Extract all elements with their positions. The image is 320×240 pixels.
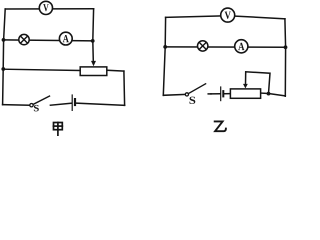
switch S (left circuit) xyxy=(30,96,50,107)
node: junction dot right rail / lamp row (right circuit) xyxy=(284,45,288,49)
battery B (right circuit) xyxy=(221,87,225,101)
wire: top rail (left circuit) xyxy=(5,8,93,10)
wire: bottom rail to switch (right circuit) xyxy=(163,93,185,96)
wire: battery to rheostat (right circuit) xyxy=(225,93,231,95)
wire: rheostat right terminal to right rail corner xyxy=(107,69,124,72)
wire: battery to bottom-right corner (left circuit) xyxy=(76,103,124,105)
label 乙 (drawn glyph) xyxy=(215,121,226,131)
node: junction dot left rail / rheostat row xyxy=(1,67,5,71)
label 甲 (drawn glyph) xyxy=(54,123,63,136)
ammeter A (left circuit) xyxy=(59,32,72,45)
wire: left rail (left circuit) xyxy=(3,9,6,105)
wire: right upper rail from top rail to slider arrow (left circuit) xyxy=(92,9,95,61)
voltmeter V (right circuit) xyxy=(221,8,235,22)
wire: lamp-ammeter row (right circuit) xyxy=(165,46,285,48)
battery B (left circuit) xyxy=(72,95,76,110)
rheostat slider arrow (right circuit) xyxy=(243,84,248,89)
wire: lamp-ammeter row (left circuit) xyxy=(4,40,93,41)
wire: switch to battery (left circuit) xyxy=(50,103,71,105)
rheostat R (left circuit) xyxy=(80,67,107,76)
wire: bottom rail left segment to switch (left circuit) xyxy=(3,104,30,107)
node: junction dot left rail / lamp row xyxy=(2,38,6,42)
lamp L (right circuit) xyxy=(198,41,208,51)
label S (right switch) xyxy=(190,97,196,104)
rheostat slider arrow (left circuit) xyxy=(91,61,96,66)
wire: left rail to rheostat left terminal xyxy=(3,69,80,70)
wire: rheostat right terminal to right rail (right circuit) xyxy=(261,93,285,96)
lamp L (left circuit) xyxy=(19,34,29,44)
switch S (right circuit) xyxy=(185,84,211,96)
wire: top rail (right circuit) xyxy=(166,16,285,19)
ammeter A (right circuit) xyxy=(235,40,248,53)
node: junction dot ammeter row / slider wire xyxy=(91,39,95,43)
rheostat R (right circuit) xyxy=(230,89,260,98)
wire: left rail (right circuit) xyxy=(163,17,165,95)
label S (left switch) xyxy=(34,105,39,112)
node: junction dot rheostat output / loop (right circuit) xyxy=(267,92,271,96)
wire: right lower rail (left circuit) xyxy=(123,71,126,105)
voltmeter V (left circuit) xyxy=(39,1,52,14)
node: junction dot left rail / lamp row (right circuit) xyxy=(163,45,167,49)
wire: slider shaft and loop to right (right circuit) xyxy=(246,72,271,94)
wire: right rail (right circuit) xyxy=(284,19,287,96)
wire: switch to battery (right circuit) xyxy=(211,93,220,95)
